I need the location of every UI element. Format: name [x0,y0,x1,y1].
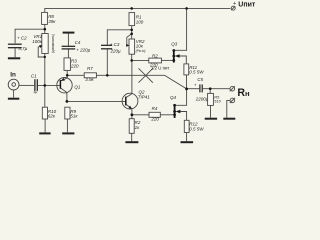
svg-text:C1: C1 [31,74,37,79]
wire R3 to Q1 emitter [66,70,68,78]
X crossing mark at midpoint annotation [139,68,153,82]
svg-text:R2: R2 [152,53,158,58]
svg-text:(громкость): (громкость) [51,34,55,53]
output terminal upper [230,86,235,91]
svg-text:(Рж.iо): (Рж.iо) [136,49,146,53]
wire R4 right to Q4 base [160,114,174,116]
transistor Q2 [122,90,150,110]
wire midpoint to C5 [187,88,200,90]
svg-text:Uпит: Uпит [238,2,256,9]
potentiometer VR2 [126,34,145,54]
wire midpoint down to Q4 collector [176,89,187,105]
wire R12 to ground [186,133,188,142]
ground under R5 [205,118,217,120]
svg-text:510: 510 [214,98,221,103]
svg-text:R4: R4 [152,106,158,111]
wire Q2 emitter down [131,109,133,119]
input jack In [8,72,19,90]
svg-text:Q1: Q1 [74,84,81,89]
svg-text:+ 220µ: + 220µ [76,47,90,52]
svg-text:+ C3: + C3 [110,42,120,47]
potentiometer VR1 [32,34,55,58]
wire R7 right to feedback diagonal [96,74,164,76]
svg-text:39к: 39к [48,19,56,24]
wire Q3 collector to rail [175,8,187,50]
junction midpoint R11 / Q4 / C5 / feedback [185,88,188,91]
junction VR2 wiper tie [130,33,133,36]
svg-text:C4: C4 [75,40,81,45]
svg-text:+: + [194,82,197,87]
junction R8 bottom / C2 / VR1 top [44,28,47,31]
junction VR1 wiper tie [44,56,46,58]
ground under R2b [125,141,138,143]
junction R1 bottom / C3 wire [130,29,133,32]
ground under R9 [62,132,74,134]
capacitor C5 [194,77,209,101]
resistor R8 [42,12,57,24]
wire input jack to C1 [19,84,34,86]
junction Q2 emitter / R2b / R4 [131,113,134,116]
ground under R12 [181,141,194,143]
wire R10 bottom to ground [44,119,46,132]
resistor R11 [184,64,204,75]
ground under lower terminal [223,118,235,120]
svg-text:62к: 62к [48,113,56,118]
wire C2 bottom to ground [14,48,16,57]
wire R2b to ground [131,133,133,141]
svg-text:+ C2: + C2 [17,36,27,41]
ground under input jack [8,98,19,100]
resistor R4 [149,106,160,121]
output terminal lower [230,98,235,103]
svg-text:Q3: Q3 [171,41,178,46]
wire 510 to ground [210,105,212,117]
junction C3 bottom / feedback wire [106,74,109,77]
wire C3 top elbow to R1 node [107,30,131,45]
transistor Q1 [57,78,81,93]
svg-text:220µ: 220µ [110,48,122,53]
svg-text:TIP41: TIP41 [138,95,151,100]
resistor R7 [84,66,96,82]
wire Q4 emitter to R12 [180,112,186,121]
wire R9 bottom to ground [66,119,68,132]
wire R1 bottom to VR2 top [131,26,133,39]
wire Q2 collector vertical [131,60,133,93]
junction C1 / Q1 base / R10 [44,84,47,87]
wire C4 bottom to R3 [67,49,69,58]
wire input jack to ground [13,90,15,98]
wire C2 elbow to node A [15,29,45,43]
resistor R2b 1k [129,119,141,134]
wire C1 to Q1 base [38,84,61,86]
resistor R3 [64,58,79,71]
transistor Q3 [171,41,179,62]
capacitor C4 [62,40,91,52]
wire VR1 bottom to base node and R10 [44,54,46,108]
ground under R10 [39,132,50,134]
wire C5 to output terminal [203,88,230,90]
junction rail / R1 top [130,7,133,10]
capacitor C1 [31,74,38,95]
transistor Q4 [170,95,180,118]
svg-text:2200µ: 2200µ [195,97,209,102]
wire C4 top to ground bar [67,34,69,47]
svg-text:C5: C5 [197,77,203,82]
wire node to R2 left [132,59,149,61]
wire R11 to midpoint [186,75,188,89]
capacitor C3 [101,42,121,53]
svg-text:220: 220 [149,62,158,67]
wire C3 bottom to R7 net [106,49,108,75]
svg-text:4,7µ: 4,7µ [18,46,27,51]
svg-text:220: 220 [150,116,159,121]
svg-text:51к: 51к [70,113,78,118]
svg-text:In: In [10,72,16,79]
capacitor C2 [8,36,28,51]
svg-text:R7: R7 [87,66,93,71]
svg-text:100к: 100к [32,39,43,44]
wire R2 right to Q3 base [161,59,173,61]
svg-text:0.5 5W: 0.5 5W [189,127,204,132]
wire lower terminal elbow to ground [227,100,230,117]
svg-text:+: + [233,1,236,7]
wire Q2 emitter node to R4 [132,114,149,116]
ground above C4 [63,32,75,34]
svg-text:220: 220 [70,63,79,68]
supply terminal +Upit [231,1,256,10]
resistor R2 [149,53,162,67]
svg-text:Q4: Q4 [170,95,177,100]
svg-text:3.9к: 3.9к [85,77,94,82]
junction VR2 bottom / R2 / Q2 collector [130,59,133,62]
wire VR2 bottom to node [131,54,133,60]
wire Q1 collector down to node [66,92,68,101]
wire R7 left to emitter column [67,74,84,76]
junction R3-Q1 emitter / R7 left [66,74,69,77]
wire feedback diagonal to midpoint [165,75,187,89]
wire top supply rail [45,8,231,12]
wire output node down to 510 [209,89,211,94]
junction rail / Q3 collector [185,7,188,10]
resistor R5 510 [208,93,222,105]
svg-text:100: 100 [136,19,144,24]
ground under C2 [8,57,20,59]
wire R8 bottom to VR1 top [44,24,46,33]
wire Q1 collector node to Q2 base [67,100,126,102]
resistor R9 [65,107,79,119]
resistor R12 [184,120,204,132]
junction Q1 collector / R9 / Q2 base [66,100,69,103]
junction output / R5 top [209,87,212,90]
svg-text:0.5 5W: 0.5 5W [189,70,204,75]
resistor R10 [42,107,56,119]
svg-text:Rн: Rн [237,87,250,99]
svg-text:10к: 10к [136,44,144,49]
wire Q3 emitter to R11 [180,56,187,64]
resistor R1 [129,13,144,26]
